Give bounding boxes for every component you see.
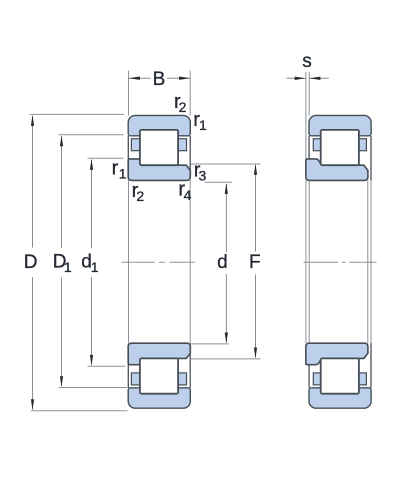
svg-text:B: B	[153, 69, 166, 90]
svg-text:D: D	[24, 252, 38, 273]
svg-text:d: d	[217, 252, 228, 273]
svg-text:s: s	[302, 51, 312, 72]
svg-text:F: F	[249, 252, 261, 273]
